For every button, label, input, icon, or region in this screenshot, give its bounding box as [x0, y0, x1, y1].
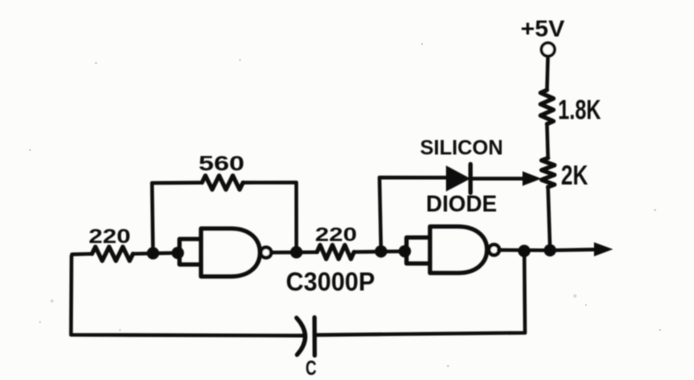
- resistor 220 (middle): [317, 245, 354, 259]
- NAND gate U1b output bubble: [489, 245, 499, 255]
- wire: 560 feedback loop right riser: [243, 183, 296, 251]
- wire: 220 to node E: [354, 249, 405, 253]
- svg-text:C: C: [306, 357, 317, 380]
- svg-text:+5V: +5V: [521, 16, 566, 42]
- svg-text:DIODE: DIODE: [426, 191, 497, 217]
- node D junction dot (diode tap): [375, 245, 387, 257]
- wire: diode to pot wiper: [471, 177, 527, 181]
- svg-text:220: 220: [315, 224, 357, 246]
- wire: gate 2 output to output node: [499, 248, 552, 252]
- svg-text:1.8K: 1.8K: [558, 94, 601, 125]
- capacitor C curved plate: [297, 318, 306, 355]
- svg-text:220: 220: [89, 225, 131, 248]
- svg-text:SILICON: SILICON: [420, 136, 503, 160]
- diode D1 triangle: [446, 166, 471, 192]
- wire: 1.8K to 2K: [547, 124, 548, 158]
- wire: bottom feedback left riser: [71, 256, 304, 336]
- NAND gate U1b body: [430, 227, 487, 274]
- diode D1 cathode bar: [468, 164, 472, 193]
- node F junction dot (capacitor feedback): [518, 245, 530, 257]
- node C junction dot: [290, 246, 302, 258]
- resistor 220 (left): [92, 247, 133, 261]
- node A junction dot: [147, 247, 159, 259]
- node G junction dot (pot tap): [544, 244, 556, 256]
- pot wiper arrowhead: [523, 171, 542, 186]
- capacitor C straight plate: [312, 317, 317, 355]
- svg-text:C3000P: C3000P: [286, 267, 375, 297]
- node E junction dot (gate 2 input): [399, 245, 411, 257]
- wire: left input lead: [72, 252, 92, 256]
- wire: gate 1 input bracket: [180, 239, 202, 265]
- scan speckles: [29, 43, 661, 368]
- wire: 560 feedback loop left riser: [152, 183, 202, 251]
- +5V terminal circle: [541, 43, 554, 56]
- NAND gate U1a body: [201, 229, 260, 277]
- wire: gate 1 output to node C: [272, 250, 318, 254]
- resistor 1.8K: [541, 90, 554, 124]
- output arrowhead: [594, 242, 613, 256]
- wire: 2K to output node: [548, 187, 550, 248]
- wire: +5V to 1.8K: [545, 57, 550, 90]
- node B junction dot (gate 1 input): [172, 247, 184, 259]
- svg-text:560: 560: [199, 152, 245, 176]
- potentiometer 2K element: [542, 158, 555, 187]
- wire: bottom feedback right riser: [316, 252, 526, 336]
- NAND gate U1a output bubble: [261, 247, 271, 257]
- wire: output lead: [552, 248, 596, 253]
- wire: diode branch riser: [380, 178, 447, 250]
- wire: gate 2 input bracket: [407, 238, 431, 264]
- resistor 560: [202, 176, 243, 190]
- svg-text:2K: 2K: [561, 160, 588, 191]
- wire: 220 to node A: [133, 251, 178, 256]
